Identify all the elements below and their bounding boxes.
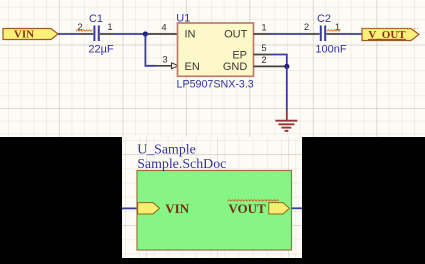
wire out of sheet symbol right bbox=[292, 207, 303, 209]
svg-text:IN: IN bbox=[185, 29, 196, 41]
bottom sheet window bbox=[122, 137, 302, 258]
pin 4 IN of U1 bbox=[147, 33, 178, 35]
wire into sheet symbol left bbox=[122, 207, 138, 209]
wavy underline under C1 pin 2 bbox=[76, 30, 93, 31]
junction node B bbox=[284, 64, 289, 69]
svg-text:U1: U1 bbox=[176, 12, 190, 24]
svg-text:4: 4 bbox=[161, 23, 166, 34]
svg-text:LP5907SNX-3.3: LP5907SNX-3.3 bbox=[177, 79, 254, 91]
sheet entry VOUT arrow bbox=[269, 203, 290, 214]
svg-text:GND: GND bbox=[223, 61, 248, 73]
sheet entry VIN arrow bbox=[138, 203, 160, 214]
svg-text:1: 1 bbox=[107, 22, 112, 33]
pin 1 OUT of U1 bbox=[254, 33, 271, 35]
svg-text:VIN: VIN bbox=[165, 201, 189, 216]
wire C1 to junction bbox=[113, 33, 146, 35]
svg-text:VOUT: VOUT bbox=[228, 201, 266, 216]
svg-text:OUT: OUT bbox=[224, 29, 248, 41]
sheet symbol U_Sample bbox=[137, 171, 292, 251]
svg-text:1: 1 bbox=[335, 22, 340, 33]
pin 3 EN of U1 bbox=[156, 63, 179, 69]
svg-text:22µF: 22µF bbox=[88, 43, 114, 55]
svg-text:EN: EN bbox=[185, 61, 200, 73]
svg-text:EP: EP bbox=[232, 49, 247, 61]
svg-text:100nF: 100nF bbox=[315, 44, 346, 56]
wavy underline under C2 pin 1 bbox=[327, 30, 341, 31]
op-amp U1 body bbox=[178, 23, 254, 76]
pin 2 GND of U1 bbox=[254, 65, 287, 67]
ground bbox=[275, 111, 297, 131]
svg-text:C2: C2 bbox=[317, 13, 331, 25]
svg-text:2: 2 bbox=[304, 22, 309, 33]
svg-text:3: 3 bbox=[162, 54, 167, 65]
svg-text:VIN: VIN bbox=[14, 29, 34, 41]
wavy line over VOUT entry bbox=[228, 200, 279, 201]
port V_OUT bbox=[362, 28, 419, 41]
wire junction to ground bbox=[286, 66, 288, 110]
wire junction down to EN bbox=[145, 34, 156, 66]
wire C2 to V_OUT bbox=[340, 33, 364, 35]
wire EP corner down bbox=[271, 55, 287, 67]
svg-text:1: 1 bbox=[261, 23, 266, 34]
capacitor C2 bbox=[307, 26, 340, 42]
wire VIN to C1 bbox=[58, 33, 80, 35]
top schematic sheet bbox=[0, 0, 425, 137]
wire OUT to C2 bbox=[270, 33, 307, 35]
svg-text:C1: C1 bbox=[89, 13, 103, 25]
port VIN bbox=[3, 29, 58, 41]
capacitor C1 bbox=[80, 26, 113, 42]
svg-text:Sample.SchDoc: Sample.SchDoc bbox=[137, 157, 226, 172]
junction node A bbox=[143, 31, 148, 36]
svg-text:2: 2 bbox=[261, 55, 266, 66]
pin 5 EP of U1 bbox=[254, 54, 272, 56]
svg-text:U_Sample: U_Sample bbox=[137, 143, 196, 158]
svg-text:5: 5 bbox=[261, 43, 266, 54]
